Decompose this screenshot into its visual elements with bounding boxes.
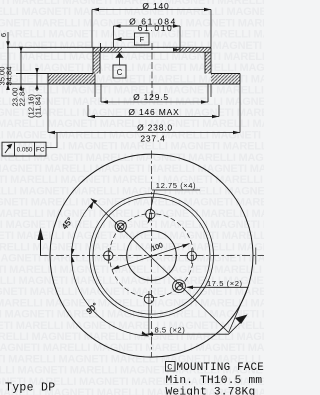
hat plate hatch right bbox=[174, 47, 212, 52]
svg-text:MAGNETI MARELLI MAGNETI MARELL: MAGNETI MARELLI MAGNETI MARELLI MAGNETI … bbox=[0, 152, 264, 164]
dim line diameter 61.084 bbox=[114, 26, 181, 52]
dia140 arrows bbox=[92, 8, 99, 12]
friction band right section bbox=[211, 74, 240, 85]
bore edge arrow bbox=[173, 48, 180, 52]
bolt hole top bbox=[146, 210, 155, 219]
horizontal centerline bbox=[41, 255, 265, 257]
view arrow shaft left bbox=[40, 238, 42, 256]
svg-text:(11.84): (11.84) bbox=[34, 94, 43, 118]
svg-text:MAGNETI MARELLI MAGNETI MARELL: MAGNETI MARELLI MAGNETI MARELLI MAGNETI … bbox=[0, 62, 264, 74]
8.5 label underline bbox=[146, 323, 240, 334]
dim diameter 129.5 bbox=[101, 84, 208, 102]
svg-text:MAGNETI MARELLI MAGNETI MARELL: MAGNETI MARELLI MAGNETI MARELLI MAGNETI … bbox=[0, 51, 264, 63]
svg-text:MAGNETI MARELLI MAGNETI MARELL: MAGNETI MARELLI MAGNETI MARELLI MAGNETI … bbox=[0, 29, 264, 41]
dia129.5 arrows bbox=[101, 100, 108, 104]
svg-text:F: F bbox=[140, 35, 145, 44]
svg-text:C: C bbox=[117, 68, 123, 77]
dia146 arrows bbox=[88, 115, 95, 119]
svg-text:Ø 129.5: Ø 129.5 bbox=[133, 92, 169, 102]
svg-text:MAGNETI MARELLI MAGNETI MARELL: MAGNETI MARELLI MAGNETI MARELLI MAGNETI … bbox=[0, 197, 264, 209]
svg-text:Ø 238.0: Ø 238.0 bbox=[137, 123, 173, 133]
svg-text:MAGNETI MARELLI MAGNETI MARELL: MAGNETI MARELLI MAGNETI MARELLI MAGNETI … bbox=[0, 241, 264, 253]
right edge tick bbox=[255, 248, 257, 265]
svg-text:FC: FC bbox=[36, 147, 45, 154]
dim12.16 arrows bbox=[35, 68, 39, 74]
45 deg arc bbox=[72, 202, 94, 256]
svg-text:MOUNTING FACE: MOUNTING FACE bbox=[177, 362, 264, 374]
dim23 arrows bbox=[19, 47, 23, 53]
bolt hole left bbox=[104, 251, 113, 260]
svg-text:MAGNETI MARELLI MAGNETI MARELL: MAGNETI MARELLI MAGNETI MARELLI MAGNETI … bbox=[0, 129, 264, 141]
datum F leader arrow bbox=[114, 37, 122, 41]
hat left wall bbox=[93, 43, 101, 74]
12.75 label underline and leader bbox=[148, 190, 200, 223]
dim diameter 238 bbox=[48, 84, 240, 133]
FCF runout symbol bbox=[5, 145, 12, 154]
dia238 arrows bbox=[48, 131, 55, 135]
svg-text:61.010: 61.010 bbox=[138, 23, 174, 33]
svg-text:MAGNETI MARELLI MAGNETI MARELL: MAGNETI MARELLI MAGNETI MARELLI MAGNETI … bbox=[0, 40, 264, 52]
svg-text:8.5 (×2): 8.5 (×2) bbox=[155, 326, 186, 335]
datum C box bbox=[113, 65, 126, 78]
12.75 leader arrow bbox=[148, 217, 152, 224]
dim diameter 146 bbox=[88, 105, 219, 117]
svg-text:Ø 140: Ø 140 bbox=[142, 1, 169, 11]
17.5 label underline bbox=[187, 287, 249, 332]
90 deg arc bbox=[71, 256, 148, 337]
dia61 arrows bbox=[114, 24, 121, 28]
svg-text:34.84: 34.84 bbox=[5, 66, 14, 85]
svg-text:MAGNETI MARELLI MAGNETI MARELL: MAGNETI MARELLI MAGNETI MARELLI MAGNETI … bbox=[0, 118, 264, 130]
svg-text:Min. TH10.5 mm: Min. TH10.5 mm bbox=[166, 375, 263, 387]
section axis centerline bbox=[151, 43, 153, 100]
svg-text:MAGNETI MARELLI MAGNETI MARELL: MAGNETI MARELLI MAGNETI MARELLI MAGNETI … bbox=[0, 264, 264, 276]
hat plate hatch left bbox=[93, 47, 122, 52]
svg-text:MAGNETI MARELLI MAGNETI MARELL: MAGNETI MARELLI MAGNETI MARELLI MAGNETI … bbox=[0, 185, 264, 197]
band inner edge stubs bbox=[95, 74, 211, 98]
svg-text:C: C bbox=[167, 363, 172, 373]
svg-text:MAGNETI MARELLI MAGNETI MARELL: MAGNETI MARELLI MAGNETI MARELLI MAGNETI … bbox=[0, 208, 264, 220]
svg-text:MAGNETI MARELLI MAGNETI MARELL: MAGNETI MARELLI MAGNETI MARELLI MAGNETI … bbox=[0, 286, 264, 298]
datum F box bbox=[135, 33, 150, 45]
dim line diameter 140 bbox=[92, 10, 211, 48]
45 arc arrows bbox=[71, 249, 75, 256]
dim 6 line bbox=[7, 32, 9, 89]
mounting face line bbox=[20, 51, 211, 53]
svg-text:MAGNETI MARELLI MAGNETI MARELL: MAGNETI MARELLI MAGNETI MARELLI MAGNETI … bbox=[0, 163, 264, 175]
svg-text:Type DP: Type DP bbox=[5, 382, 55, 395]
dim 23.00 line bbox=[20, 47, 22, 91]
vertical centerline bbox=[151, 151, 153, 358]
svg-text:Weight 3.78Kg: Weight 3.78Kg bbox=[166, 386, 256, 395]
runout feature control frame bbox=[2, 142, 46, 156]
disc outer circle bbox=[50, 154, 253, 357]
hat circle bbox=[93, 197, 210, 314]
svg-text:12.75 (×4): 12.75 (×4) bbox=[156, 181, 196, 190]
view arrow head SE bbox=[235, 315, 248, 325]
svg-text:Ø 146 MAX: Ø 146 MAX bbox=[128, 107, 179, 117]
svg-text:MAGNETI MARELLI MAGNETI MARELL: MAGNETI MARELLI MAGNETI MARELLI MAGNETI … bbox=[0, 219, 264, 231]
svg-text:6: 6 bbox=[0, 33, 8, 37]
bolt hole right bbox=[187, 251, 196, 260]
datum target NW bbox=[115, 221, 126, 232]
arrowheads bbox=[6, 8, 247, 336]
datum target SE tick bbox=[176, 283, 182, 289]
friction band left section bbox=[16, 74, 93, 85]
datum target NW tick bbox=[118, 224, 124, 230]
dim 100 line bbox=[112, 244, 190, 270]
diagonal datum axis 45deg bbox=[91, 199, 229, 333]
view arrow head left bbox=[38, 228, 44, 241]
dim100 arrows bbox=[182, 244, 189, 248]
svg-text:22.84: 22.84 bbox=[18, 87, 27, 106]
hole bottom bbox=[144, 294, 153, 303]
17.5 leader arrow bbox=[186, 286, 193, 290]
8.5 leader arrow bbox=[146, 332, 153, 336]
datum axis NW arrow bbox=[91, 199, 98, 204]
svg-text:0.050: 0.050 bbox=[17, 147, 33, 154]
centre bore circle bbox=[127, 231, 177, 281]
svg-text:MAGNETI MARELLI MAGNETI MARELL: MAGNETI MARELLI MAGNETI MARELLI MAGNETI … bbox=[0, 342, 264, 354]
svg-text:17.5 (×2): 17.5 (×2) bbox=[207, 279, 243, 288]
bolt PCD circle bbox=[110, 214, 194, 298]
band inner circle bbox=[90, 194, 214, 318]
dim 12.16 line bbox=[36, 68, 38, 91]
band bottom line bbox=[6, 83, 240, 85]
dim6 arrows bbox=[6, 41, 10, 47]
FCF leader bbox=[46, 133, 57, 148]
svg-text:237.4: 237.4 bbox=[140, 134, 165, 144]
top face line bbox=[7, 46, 211, 48]
hat right wall bbox=[205, 47, 211, 73]
svg-text:MAGNETI MARELLI MAGNETI MARELL: MAGNETI MARELLI MAGNETI MARELLI MAGNETI … bbox=[0, 297, 264, 309]
90 arc arrows bbox=[71, 256, 75, 263]
svg-text:MAGNETI MARELLI MAGNETI MARELL: MAGNETI MARELLI MAGNETI MARELLI MAGNETI … bbox=[0, 331, 264, 343]
datum target SE bbox=[173, 280, 186, 293]
datum C leader arrow bbox=[115, 52, 123, 57]
bottom annotation block bbox=[5, 362, 264, 395]
